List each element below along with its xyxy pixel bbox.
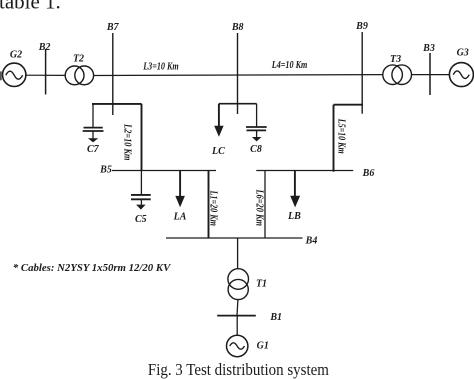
wire T2 to T3 (main line through B7 B8 B9)	[94, 74, 383, 77]
svg-text:L5=10 Km: L5=10 Km	[335, 118, 346, 154]
svg-text:C5: C5	[135, 214, 147, 225]
feeder line L6	[254, 171, 265, 239]
svg-text:L3=10 Km: L3=10 Km	[142, 62, 178, 73]
wire T3 to G3	[412, 74, 450, 76]
line label L4=10 Km	[271, 60, 307, 71]
svg-text:L4=10 Km: L4=10 Km	[271, 60, 307, 71]
capacitor C7	[83, 104, 104, 155]
feeder line L5	[334, 105, 347, 172]
svg-text:B7: B7	[106, 22, 120, 33]
svg-text:L1=20 Km: L1=20 Km	[208, 190, 219, 226]
svg-text:LA: LA	[173, 212, 187, 223]
svg-text:B6: B6	[362, 168, 375, 179]
svg-text:B2: B2	[38, 42, 51, 53]
figure caption	[148, 360, 329, 379]
bus B9	[355, 21, 368, 114]
load LB	[287, 171, 301, 223]
wire G2 to T2	[26, 74, 65, 76]
svg-text:G3: G3	[457, 48, 469, 59]
svg-text:T1: T1	[256, 278, 267, 289]
wire B4 to T1	[237, 238, 239, 269]
bus B6	[256, 168, 374, 179]
svg-text:B3: B3	[422, 43, 435, 54]
cables note	[13, 262, 172, 274]
svg-text:LB: LB	[287, 211, 301, 222]
svg-text:L2=10 Km: L2=10 Km	[121, 123, 132, 161]
transformer T3	[383, 54, 412, 85]
svg-text:B1: B1	[269, 312, 282, 323]
generator G2	[0, 49, 26, 86]
capacitor C5	[131, 171, 151, 225]
wire B7 branch horizontal	[92, 103, 142, 105]
wire B9 branch horizontal	[334, 104, 364, 106]
svg-text:B5: B5	[99, 164, 112, 175]
line label L3=10 Km	[142, 62, 178, 73]
svg-text:LC: LC	[211, 146, 225, 157]
bus B7	[106, 22, 120, 115]
svg-text:Fig. 3 Test distribution syste: Fig. 3 Test distribution system	[148, 360, 329, 379]
svg-text:table 1.: table 1.	[0, 0, 61, 13]
capacitor C8	[246, 104, 267, 155]
bus B3	[422, 43, 435, 95]
bus B2	[38, 42, 51, 94]
generator G3	[449, 48, 473, 87]
wire B8 branch horizontal	[219, 103, 257, 105]
bus B8	[231, 22, 244, 114]
feeder line L1	[208, 171, 219, 239]
svg-text:L6=20 Km: L6=20 Km	[254, 189, 265, 227]
generator G1	[227, 335, 269, 356]
svg-text:C7: C7	[87, 144, 100, 155]
svg-text:G2: G2	[10, 49, 22, 60]
svg-text:* Cables: N2YSY 1x50rm 12/20 K: * Cables: N2YSY 1x50rm 12/20 KV	[13, 262, 172, 274]
wire B1 to G1	[236, 316, 238, 336]
svg-text:G1: G1	[257, 341, 269, 352]
bus B5	[99, 164, 216, 175]
load LA	[173, 171, 187, 223]
cropped heading text "table 1."	[0, 0, 61, 13]
bus B1	[217, 312, 282, 323]
feeder line L2	[121, 104, 141, 171]
wire T1 to B1	[236, 300, 239, 316]
bus B4	[166, 236, 317, 247]
transformer T2	[65, 53, 93, 85]
svg-text:C8: C8	[250, 144, 262, 155]
transformer T1	[228, 269, 267, 300]
svg-text:T2: T2	[73, 53, 84, 64]
svg-text:B9: B9	[355, 21, 368, 32]
svg-text:B8: B8	[231, 22, 244, 33]
svg-text:B4: B4	[305, 236, 318, 247]
load LC	[211, 104, 225, 157]
svg-text:T3: T3	[390, 54, 401, 65]
